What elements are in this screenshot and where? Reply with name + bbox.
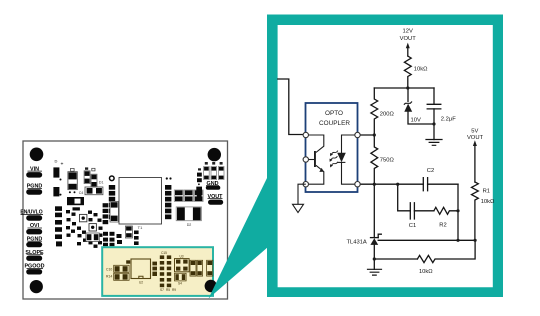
svg-text:200Ω: 200Ω bbox=[380, 111, 395, 117]
svg-text:C1: C1 bbox=[409, 223, 416, 229]
svg-text:12V: 12V bbox=[403, 29, 413, 35]
svg-text:C2: C2 bbox=[427, 168, 434, 174]
svg-text:2.2μF: 2.2μF bbox=[441, 116, 456, 122]
svg-text:750Ω: 750Ω bbox=[380, 158, 395, 164]
svg-text:C4: C4 bbox=[79, 191, 84, 195]
svg-text:D2: D2 bbox=[187, 223, 192, 227]
svg-text:U2: U2 bbox=[139, 281, 143, 285]
svg-text:10kΩ: 10kΩ bbox=[419, 269, 433, 275]
svg-text:R9: R9 bbox=[172, 288, 176, 292]
svg-text:R1: R1 bbox=[483, 189, 490, 195]
svg-text:10kΩ: 10kΩ bbox=[481, 199, 495, 205]
svg-text:C10: C10 bbox=[106, 268, 112, 272]
svg-text:R5: R5 bbox=[166, 288, 170, 292]
svg-text:+: + bbox=[61, 162, 64, 168]
svg-text:T1: T1 bbox=[138, 225, 143, 230]
svg-text:S4: S4 bbox=[178, 282, 182, 286]
svg-text:S7: S7 bbox=[160, 288, 164, 292]
svg-text:R2: R2 bbox=[439, 223, 446, 229]
svg-text:COUPLER: COUPLER bbox=[319, 120, 350, 127]
svg-text:R14: R14 bbox=[106, 275, 112, 279]
svg-text:OPTO: OPTO bbox=[325, 110, 343, 117]
svg-text:10V: 10V bbox=[411, 117, 421, 123]
svg-text:C15: C15 bbox=[161, 251, 167, 255]
svg-text:5V: 5V bbox=[471, 128, 478, 134]
svg-text:10kΩ: 10kΩ bbox=[414, 67, 428, 73]
svg-text:D1: D1 bbox=[99, 181, 104, 185]
svg-text:U3: U3 bbox=[179, 255, 183, 259]
svg-text:TL431A: TL431A bbox=[346, 240, 366, 246]
svg-text:VOUT: VOUT bbox=[400, 36, 417, 42]
svg-text:D: D bbox=[55, 158, 58, 163]
svg-text:VOUT: VOUT bbox=[467, 135, 484, 141]
